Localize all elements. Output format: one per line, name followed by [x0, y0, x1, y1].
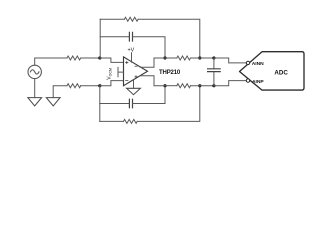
wire node C2out to R6 — [165, 85, 177, 87]
node R3 out — [198, 56, 201, 59]
node A — [98, 56, 101, 59]
amp ground stem — [133, 80, 135, 89]
minus mark output — [135, 65, 137, 67]
supply +V stem — [131, 53, 133, 62]
ground GND2 — [46, 98, 60, 106]
wire node A to amp input + with step — [100, 58, 124, 62]
node bottom diff cap — [212, 84, 215, 87]
minus mark input — [126, 80, 128, 82]
wire top feedback cap rail right — [133, 37, 166, 58]
wire amp bottom output stub — [140, 76, 165, 86]
resistor R1 — [67, 56, 81, 60]
plus mark output — [135, 76, 137, 78]
wire bottom feedback cap rail left — [100, 103, 130, 105]
wire node C1out to R5 — [165, 57, 177, 59]
wire source bottom to ground — [34, 79, 36, 98]
wire R6 to diff cap node — [191, 85, 214, 87]
plus mark input — [126, 61, 128, 63]
wire top feedback cap rail left — [100, 36, 129, 38]
ADC block — [240, 52, 305, 90]
wire top feedback resistor rail left — [100, 18, 124, 20]
svg-text:AINP: AINP — [252, 79, 264, 85]
wire top feedback resistor rail right — [138, 19, 200, 58]
resistor R5 — [177, 56, 191, 60]
capacitor C2 — [129, 99, 132, 108]
wire top feedback left vertical — [99, 19, 101, 58]
wire bottom feedback resistor rail right — [137, 86, 200, 122]
node C1 out — [163, 56, 166, 59]
op-amp U1 THP210 — [124, 57, 148, 86]
capacitor C1 — [129, 32, 132, 41]
capacitor C3 differential — [213, 58, 215, 86]
wire source top to input resistor — [35, 58, 67, 65]
node B — [98, 84, 101, 87]
wire node B to amp input - with step — [100, 81, 124, 86]
AC source V1 — [28, 65, 41, 78]
wire bottom feedback cap rail right — [133, 86, 166, 104]
svg-text:THP210: THP210 — [159, 70, 181, 76]
ground GND1 — [28, 98, 42, 106]
svg-text:AINN: AINN — [252, 61, 264, 67]
wire amp top output stub — [140, 58, 165, 67]
resistor R2 — [67, 84, 81, 88]
svg-text:+V: +V — [128, 47, 135, 53]
node top diff cap — [212, 56, 215, 59]
wire R2 to node B — [81, 85, 100, 87]
resistor R4 — [124, 119, 138, 123]
resistor R6 — [177, 84, 191, 88]
wire top to ADC AINN with step — [214, 58, 246, 63]
resistor R3 — [124, 17, 138, 21]
pin AINP circle — [246, 79, 249, 82]
wire R1 to node A — [81, 57, 100, 59]
svg-text:ADC: ADC — [274, 70, 288, 77]
wire bottom feedback resistor rail left — [100, 120, 124, 122]
node R4 out — [198, 84, 201, 87]
wire ground2 elbow to input resistor R2 — [53, 86, 67, 98]
wire bottom feedback left vertical — [99, 86, 101, 122]
ground GND3 — [127, 88, 141, 94]
wire bottom to ADC AINP with step — [214, 81, 246, 86]
pin AINN circle — [246, 61, 249, 64]
wire R5 to diff cap node — [191, 57, 214, 59]
svg-text:VOCM: VOCM — [107, 68, 113, 80]
node C2 out — [163, 84, 166, 87]
Vocm T-bar and stub — [118, 67, 124, 76]
